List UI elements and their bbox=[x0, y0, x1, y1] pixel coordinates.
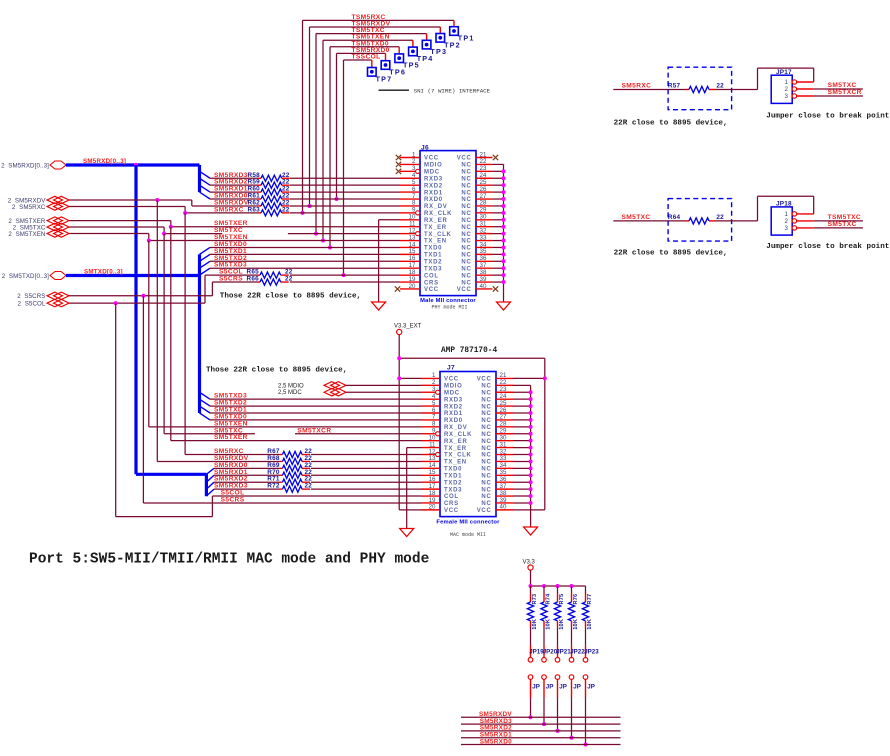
node SM5RXDV junction bbox=[529, 715, 533, 719]
svg-text:NC: NC bbox=[461, 176, 471, 182]
svg-text:SMTXD[0..3]: SMTXD[0..3] bbox=[84, 269, 123, 276]
net label S5COL bbox=[219, 269, 243, 276]
net label SM5TXC bbox=[828, 82, 857, 89]
resistor R59 22 bbox=[248, 179, 290, 189]
net label SM5TXCR bbox=[828, 89, 862, 96]
svg-text:RXD0: RXD0 bbox=[424, 197, 443, 203]
svg-text:R73: R73 bbox=[532, 594, 538, 605]
svg-text:J6: J6 bbox=[421, 144, 429, 151]
node TSM5RXC junction bbox=[301, 211, 305, 215]
resistor R71 22 bbox=[267, 476, 312, 486]
svg-text:NC: NC bbox=[461, 204, 471, 210]
svg-text:CRS: CRS bbox=[424, 280, 439, 286]
wire V3.3 to pullup rail bbox=[531, 570, 586, 586]
resistor R57 22 bbox=[668, 83, 724, 93]
jumper JP19 bbox=[528, 646, 544, 698]
part number AMP 787170-4 bbox=[441, 347, 497, 355]
svg-text:2 SM5TXEN: 2 SM5TXEN bbox=[8, 231, 45, 238]
net label SM5TXER bbox=[214, 220, 248, 227]
jumper JP20 bbox=[542, 646, 558, 698]
svg-text:MDC: MDC bbox=[424, 170, 440, 176]
SNI interface note text bbox=[414, 88, 491, 95]
node TSM5RXD0 junction bbox=[335, 197, 339, 201]
wire net SM5TXER bbox=[69, 221, 400, 227]
connector J7 caption bbox=[436, 520, 500, 539]
off-page connector SM5RXDV bbox=[8, 196, 69, 204]
wire S5COL drop to J7 COL bbox=[116, 303, 421, 516]
resistor R75 10K bbox=[554, 586, 564, 646]
connector J6 pin names bbox=[424, 156, 472, 293]
node S5CRS drop junction bbox=[141, 294, 145, 298]
svg-text:SM5TXCR: SM5TXCR bbox=[828, 89, 862, 96]
node SM5TXEN junction bbox=[147, 239, 151, 243]
net label SM5RXD1 bbox=[214, 186, 248, 193]
svg-text:2,5 MDIO: 2,5 MDIO bbox=[278, 383, 304, 389]
node SM5RXD2 junction bbox=[556, 729, 560, 733]
svg-text:NC: NC bbox=[481, 480, 491, 486]
svg-text:NC: NC bbox=[461, 266, 471, 272]
bus label SM5RXD[0..3] bbox=[83, 158, 126, 165]
wire net TSM5RXD0 to TP6 bbox=[337, 53, 386, 199]
off-page connector SM5RXD[0..3] bbox=[1, 161, 66, 169]
svg-text:RXD2: RXD2 bbox=[424, 183, 443, 189]
title Port 5 bbox=[29, 552, 429, 568]
svg-text:SNI (7 WIRE) INTERFACE: SNI (7 WIRE) INTERFACE bbox=[414, 88, 491, 95]
svg-text:R66: R66 bbox=[247, 276, 260, 283]
svg-text:JP: JP bbox=[532, 684, 540, 691]
ground J6 NC rail bbox=[497, 302, 511, 310]
svg-text:AMP 787170-4: AMP 787170-4 bbox=[441, 347, 497, 355]
node TSM5TXEN junction bbox=[321, 239, 325, 243]
connector J6 clock bubbles pins 3 9 12 bbox=[416, 169, 420, 235]
svg-text:10K: 10K bbox=[573, 619, 579, 630]
connector J7 pin stubs bbox=[421, 378, 513, 509]
off-page connector S5COL bbox=[18, 299, 69, 307]
note 22R close to 8895 device J7 bbox=[206, 367, 347, 375]
power symbol V3.3 bbox=[523, 560, 536, 571]
wire net SM5TXC left bbox=[69, 227, 222, 234]
wire net SM5TXD2 to J7 bbox=[210, 405, 421, 407]
net label S5CRS bbox=[219, 276, 243, 283]
wire net SM5TXD1 to J7 bbox=[210, 412, 421, 414]
note jumper close JP17 bbox=[766, 113, 890, 121]
svg-text:NC: NC bbox=[481, 425, 491, 431]
jumper JP22 bbox=[569, 646, 585, 698]
svg-text:NC: NC bbox=[461, 183, 471, 189]
junction dots J7 NC rail bbox=[529, 390, 533, 505]
net label SM5RXD3 bbox=[214, 172, 248, 179]
svg-text:RX_ER: RX_ER bbox=[444, 439, 468, 445]
wire net TSM5TXC to TP3 bbox=[316, 34, 427, 234]
svg-text:S5CRS: S5CRS bbox=[221, 496, 245, 503]
net label SM5RXC bbox=[214, 206, 244, 213]
svg-text:NC: NC bbox=[481, 418, 491, 424]
jumper JP17 bbox=[771, 69, 796, 104]
net label TSM5TXD0 bbox=[352, 40, 389, 47]
svg-text:SM5TXER: SM5TXER bbox=[214, 434, 248, 441]
svg-text:2 SM5RXC: 2 SM5RXC bbox=[12, 204, 46, 211]
resistor R70 22 bbox=[267, 469, 312, 479]
svg-text:TXD2: TXD2 bbox=[424, 260, 442, 266]
ground J7 NC rail bbox=[524, 527, 538, 535]
svg-text:NC: NC bbox=[461, 163, 471, 169]
svg-text:PHY mode MII: PHY mode MII bbox=[431, 305, 467, 311]
connector J6 body bbox=[420, 144, 476, 295]
bus SM5RXD[0..3] horizontal bbox=[66, 163, 200, 166]
net label TSM5TXEN bbox=[352, 34, 390, 41]
ground J6 RX_ER bbox=[372, 302, 386, 310]
svg-text:RX_DV: RX_DV bbox=[444, 425, 468, 431]
net label SM5RXD3 J7 bbox=[214, 483, 248, 490]
svg-text:Those 22R close to 8895 device: Those 22R close to 8895 device, bbox=[220, 293, 361, 301]
svg-text:V3.3: V3.3 bbox=[523, 560, 536, 566]
svg-text:Port 5:SW5-MII/TMII/RMII MAC m: Port 5:SW5-MII/TMII/RMII MAC mode and PH… bbox=[29, 552, 429, 568]
wire JP19 to SM5RXDV bbox=[530, 698, 532, 718]
net label SM5TXC J7 bbox=[214, 427, 243, 434]
svg-text:NC: NC bbox=[481, 501, 491, 507]
node SM5RXC jog junction bbox=[183, 211, 187, 215]
net label TSM5RXC bbox=[352, 14, 386, 21]
svg-text:22: 22 bbox=[282, 206, 290, 213]
net label SM5TXC bbox=[828, 221, 857, 228]
svg-text:VCC: VCC bbox=[424, 156, 439, 162]
svg-text:2: 2 bbox=[785, 218, 789, 225]
svg-text:R75: R75 bbox=[559, 594, 565, 605]
svg-text:R77: R77 bbox=[587, 594, 593, 605]
svg-text:R72: R72 bbox=[267, 483, 280, 490]
note 22R close to 8895 device J6 bbox=[220, 293, 361, 301]
svg-text:RXD2: RXD2 bbox=[444, 404, 463, 410]
wire net TSM5TXEN to TP4 bbox=[323, 40, 413, 240]
net label TSM5TXC bbox=[828, 214, 861, 221]
node TSM5TXD0 junction bbox=[328, 245, 332, 249]
svg-text:JP23: JP23 bbox=[584, 649, 599, 656]
bus junction SM5RXD at x136 bbox=[134, 163, 138, 167]
net label SM5RXD2 bottom bbox=[480, 725, 512, 732]
power symbol V3.3_EXT bbox=[394, 324, 422, 335]
svg-text:NC: NC bbox=[481, 390, 491, 396]
net label TSM5TXC bbox=[352, 27, 385, 34]
wire MDC to J7 bbox=[346, 391, 421, 393]
svg-text:JP: JP bbox=[559, 684, 567, 691]
svg-text:2: 2 bbox=[785, 86, 789, 93]
wire net SM5TXD3 to J7 bbox=[210, 398, 421, 400]
svg-text:V3.3_EXT: V3.3_EXT bbox=[394, 324, 422, 330]
node SM5RXDV drop junction bbox=[155, 198, 159, 202]
net label SM5RXD3 bottom bbox=[480, 718, 512, 725]
node SM5RXD1 junction bbox=[570, 736, 574, 740]
svg-text:TX_EN: TX_EN bbox=[444, 460, 467, 466]
junction dots pullup rail bbox=[529, 584, 574, 588]
svg-text:10K: 10K bbox=[532, 619, 538, 630]
wire net SM5RXD1 row bbox=[210, 191, 400, 193]
svg-text:22: 22 bbox=[716, 214, 724, 221]
svg-text:RXD0: RXD0 bbox=[444, 418, 463, 424]
connector J6 no-connect X pins 1 2 3 20 21 40 bbox=[395, 155, 498, 292]
net label SM5TXD0 J7 bbox=[214, 413, 247, 420]
svg-text:CRS: CRS bbox=[444, 501, 459, 507]
svg-text:SM5RXD[0..3]: SM5RXD[0..3] bbox=[83, 158, 126, 165]
svg-text:NC: NC bbox=[461, 218, 471, 224]
net label SM5TXD1 J7 bbox=[214, 407, 247, 414]
wire R64 to JP18 pin 1 wrap bbox=[716, 196, 814, 221]
wire net SM5RXC input to R57 bbox=[613, 89, 685, 91]
wire net SM5TXEN bbox=[69, 234, 400, 241]
net label SM5RXC J7 bbox=[214, 448, 244, 455]
wire net TSM5RXDV to TP2 bbox=[310, 27, 441, 206]
svg-text:TP7: TP7 bbox=[376, 74, 393, 83]
SNI interface note line bbox=[379, 89, 410, 91]
svg-text:TXD1: TXD1 bbox=[424, 253, 442, 259]
wire JP23 to SM5RXD0 bbox=[585, 698, 587, 745]
svg-text:TSSCOL: TSSCOL bbox=[352, 54, 381, 61]
net label SM5TXD1 bbox=[214, 248, 247, 255]
node SM5TXER junction bbox=[169, 225, 173, 229]
net label SM5TXC input bbox=[622, 214, 651, 221]
net label SM5RXD2 J7 bbox=[214, 476, 248, 483]
svg-text:JP17: JP17 bbox=[776, 69, 792, 76]
svg-text:NC: NC bbox=[461, 225, 471, 231]
off-page connector MDIO bbox=[278, 382, 346, 390]
net label SM5RXC input bbox=[622, 83, 652, 90]
test point TP5 bbox=[395, 47, 420, 70]
net label TSM5RXDV bbox=[352, 21, 391, 28]
resistor R66 22 bbox=[247, 276, 293, 286]
svg-text:TXD1: TXD1 bbox=[444, 473, 462, 479]
svg-text:VCC: VCC bbox=[444, 377, 459, 383]
node S5COL drop junction bbox=[114, 301, 118, 305]
wire JP18 pin 3 SM5TXC bbox=[797, 227, 863, 229]
resistor R63 22 bbox=[248, 206, 290, 216]
svg-text:MDIO: MDIO bbox=[444, 384, 462, 390]
net label SM5TXCR J7 bbox=[297, 427, 331, 434]
svg-text:22: 22 bbox=[716, 83, 724, 90]
junction dots J6 NC rail bbox=[502, 169, 506, 284]
off-page connector SM5TXER bbox=[8, 217, 69, 225]
svg-text:S5CRS: S5CRS bbox=[219, 276, 243, 283]
off-page connector S5CRS bbox=[17, 292, 69, 300]
svg-text:COL: COL bbox=[444, 494, 459, 500]
svg-text:TXD0: TXD0 bbox=[424, 246, 442, 252]
net label S5COL J7 bbox=[221, 490, 245, 497]
svg-text:NC: NC bbox=[461, 239, 471, 245]
wire SM5RXDV drop to J7 bbox=[157, 200, 279, 461]
wire net TSSCOL to TP7 bbox=[344, 60, 372, 275]
svg-text:SM5TXC: SM5TXC bbox=[828, 82, 857, 89]
net label SM5TXER J7 bbox=[214, 434, 248, 441]
svg-text:TXD2: TXD2 bbox=[444, 480, 462, 486]
wire net SM5TXD0 row bbox=[210, 246, 400, 248]
wire J6 pin10 RX_ER to ground bbox=[379, 220, 400, 302]
net label SM5TXD3 bbox=[214, 262, 247, 269]
wire JP17 pin 2 SM5TXC bbox=[797, 88, 863, 90]
svg-text:NC: NC bbox=[461, 232, 471, 238]
off-page connector SM5RXC bbox=[12, 203, 69, 211]
svg-text:RXD1: RXD1 bbox=[444, 411, 463, 417]
dashed option box R64 bbox=[668, 199, 732, 242]
node TSM5RXDV junction bbox=[308, 204, 312, 208]
wire net TSM5TXD0 to TP5 bbox=[330, 47, 399, 248]
svg-text:RX_CLK: RX_CLK bbox=[444, 432, 472, 438]
svg-text:JP22: JP22 bbox=[570, 649, 585, 656]
svg-text:RXD3: RXD3 bbox=[444, 397, 463, 403]
wire net SM5RXD3 bottom bbox=[461, 723, 621, 725]
resistor R65 22 bbox=[247, 269, 293, 279]
wire MDIO to J7 bbox=[346, 384, 421, 386]
wire net SM5RXD0 row bbox=[210, 198, 400, 200]
svg-text:2,5 MDC: 2,5 MDC bbox=[278, 390, 302, 396]
svg-text:SM5TXC: SM5TXC bbox=[622, 214, 651, 221]
svg-text:3: 3 bbox=[785, 225, 789, 232]
svg-text:JP: JP bbox=[546, 684, 554, 691]
wire net SM5RXD2 bottom bbox=[461, 730, 621, 732]
wire V3.3_EXT rail left bbox=[399, 335, 421, 510]
svg-text:R64: R64 bbox=[668, 214, 681, 221]
net label SM5TXEN J7 bbox=[214, 420, 248, 427]
node SM5RXD0 junction bbox=[584, 743, 588, 747]
net label SM5RXD0 bottom bbox=[480, 738, 512, 745]
bus SM5RXD tap stub to J6 RXD3-RXD0 bbox=[200, 165, 211, 199]
svg-text:Female MII connector: Female MII connector bbox=[436, 520, 500, 526]
wire net SM5RXD3 row bbox=[210, 177, 400, 179]
wire net S5CRS bbox=[69, 282, 400, 296]
net label TSSCOL bbox=[352, 54, 381, 61]
net label SM5RXD1 bottom bbox=[480, 732, 512, 739]
note 22R close JP18 bbox=[614, 250, 728, 258]
svg-text:COL: COL bbox=[424, 273, 439, 279]
node TSM5TXC junction bbox=[314, 232, 318, 236]
svg-text:MDC: MDC bbox=[444, 390, 460, 396]
note jumper close JP18 bbox=[766, 243, 890, 251]
svg-text:VCC: VCC bbox=[457, 287, 472, 293]
wire JP17 pin 3 SM5TXCR bbox=[797, 95, 863, 97]
svg-text:TXD3: TXD3 bbox=[424, 266, 442, 272]
wire JP20 to SM5RXD3 bbox=[543, 698, 545, 725]
svg-text:NC: NC bbox=[461, 273, 471, 279]
net label SM5RXD1 J7 bbox=[214, 469, 248, 476]
svg-text:Jumper close to break point,: Jumper close to break point, bbox=[766, 113, 890, 121]
svg-text:NC: NC bbox=[481, 439, 491, 445]
svg-text:VCC: VCC bbox=[457, 156, 472, 162]
wire JP22 to SM5RXD1 bbox=[571, 698, 573, 738]
svg-text:MDIO: MDIO bbox=[424, 163, 442, 169]
svg-text:TX_CLK: TX_CLK bbox=[424, 232, 452, 238]
wire J7 pin11 TX_ER to ground bbox=[407, 448, 421, 529]
wire S5CRS drop to J7 CRS bbox=[143, 296, 421, 503]
wire net SM5RXD2 J7 row bbox=[214, 481, 421, 483]
test point TP1 bbox=[450, 20, 475, 42]
node SM5RXD3 junction bbox=[542, 722, 546, 726]
connector J6 pin numbers bbox=[409, 151, 487, 289]
wire net SM5RXD0 J7 row bbox=[214, 467, 421, 469]
connector J6 pin stubs bbox=[400, 158, 492, 289]
svg-text:NC: NC bbox=[461, 260, 471, 266]
svg-text:NC: NC bbox=[481, 432, 491, 438]
svg-text:NC: NC bbox=[461, 246, 471, 252]
resistor R69 22 bbox=[267, 462, 312, 472]
svg-text:JP21: JP21 bbox=[556, 649, 571, 656]
svg-text:22R close to 8895 device,: 22R close to 8895 device, bbox=[614, 120, 728, 128]
wire net S5COL bbox=[69, 275, 400, 303]
wire V3.3_EXT to right rail bbox=[399, 358, 545, 510]
svg-text:J7: J7 bbox=[447, 365, 455, 372]
svg-text:SM5RXD0: SM5RXD0 bbox=[480, 738, 512, 745]
bus SMTXD[0..3] horizontal bbox=[66, 274, 200, 277]
svg-text:R76: R76 bbox=[573, 594, 579, 605]
svg-text:RXD3: RXD3 bbox=[424, 176, 443, 182]
svg-text:NC: NC bbox=[461, 170, 471, 176]
connector J7 body bbox=[440, 365, 496, 517]
svg-text:10K: 10K bbox=[545, 619, 551, 630]
wire net SM5RXC J7 row bbox=[311, 454, 421, 456]
wire JP18 pin 2 TSM5TXC bbox=[797, 220, 863, 222]
net label SM5TXC bbox=[214, 227, 243, 234]
svg-text:SM5RXC: SM5RXC bbox=[214, 206, 244, 213]
svg-text:22: 22 bbox=[305, 483, 313, 490]
dashed option box R57 bbox=[668, 67, 732, 110]
connector J6 caption bbox=[420, 298, 476, 311]
svg-text:SM5TXCR: SM5TXCR bbox=[297, 427, 331, 434]
net label SM5TXD3 J7 bbox=[214, 393, 247, 400]
wire R57 to JP17 pin 1 wrap bbox=[716, 68, 814, 89]
wire net SM5TXC input to R64 bbox=[613, 220, 685, 222]
wire SM5TXEN drop to J7 RX_DV bbox=[149, 241, 421, 427]
wire net TSM5RXC to TP1 bbox=[303, 20, 455, 212]
net label SM5RXDV J7 bbox=[214, 455, 249, 462]
net label SM5RXDV bbox=[214, 199, 249, 206]
svg-text:10K: 10K bbox=[587, 619, 593, 630]
wire net SM5RXD3 J7 row bbox=[214, 488, 421, 490]
net label SM5RXDV bottom bbox=[479, 711, 512, 718]
wire net SM5RXDV bottom bbox=[461, 716, 621, 718]
svg-text:NC: NC bbox=[481, 397, 491, 403]
svg-text:NC: NC bbox=[481, 453, 491, 459]
wire J7 NC pins 22-39 to ground rail bbox=[513, 385, 531, 527]
wire JP21 to SM5RXD2 bbox=[557, 698, 559, 731]
svg-text:2 SM5RXD[0..3]: 2 SM5RXD[0..3] bbox=[1, 162, 49, 169]
svg-text:VCC: VCC bbox=[424, 287, 439, 293]
svg-text:NC: NC bbox=[461, 280, 471, 286]
svg-text:NC: NC bbox=[481, 411, 491, 417]
connector J7 pin names bbox=[444, 377, 492, 514]
wire SM5TXC drop to J7 RX_CLK bbox=[164, 234, 255, 434]
svg-text:22: 22 bbox=[285, 276, 293, 283]
wire net SM5RXDV J7 row bbox=[311, 460, 421, 462]
svg-text:VCC: VCC bbox=[444, 508, 459, 514]
bus SMTXD vertical with taps to J6 TXD and J7 RXD bbox=[200, 247, 211, 419]
svg-text:NC: NC bbox=[461, 190, 471, 196]
wire net SM5TXD3 row bbox=[210, 267, 400, 269]
svg-text:MAC mode MII: MAC mode MII bbox=[450, 532, 486, 538]
svg-text:NC: NC bbox=[481, 487, 491, 493]
svg-text:NC: NC bbox=[481, 404, 491, 410]
wire SM5RXC drop to J7 bbox=[185, 213, 279, 455]
svg-text:TX_EN: TX_EN bbox=[424, 239, 447, 245]
svg-text:1: 1 bbox=[785, 79, 789, 86]
svg-text:TX_ER: TX_ER bbox=[444, 446, 467, 452]
svg-text:10K: 10K bbox=[559, 619, 565, 630]
svg-text:NC: NC bbox=[481, 384, 491, 390]
net label SM5RXD2 bbox=[214, 179, 248, 186]
test point TP2 bbox=[436, 27, 461, 49]
off-page connector SM5TXD[0..3] bbox=[2, 272, 66, 280]
svg-text:NC: NC bbox=[481, 467, 491, 473]
resistor R67 22 bbox=[267, 448, 312, 458]
net label SM5TXD2 J7 bbox=[214, 400, 247, 407]
bus SM5RXD vertical to J7 with taps bbox=[136, 165, 214, 496]
svg-text:2 SM5TXD[0..3]: 2 SM5TXD[0..3] bbox=[2, 273, 49, 280]
svg-text:TX_ER: TX_ER bbox=[424, 225, 447, 231]
